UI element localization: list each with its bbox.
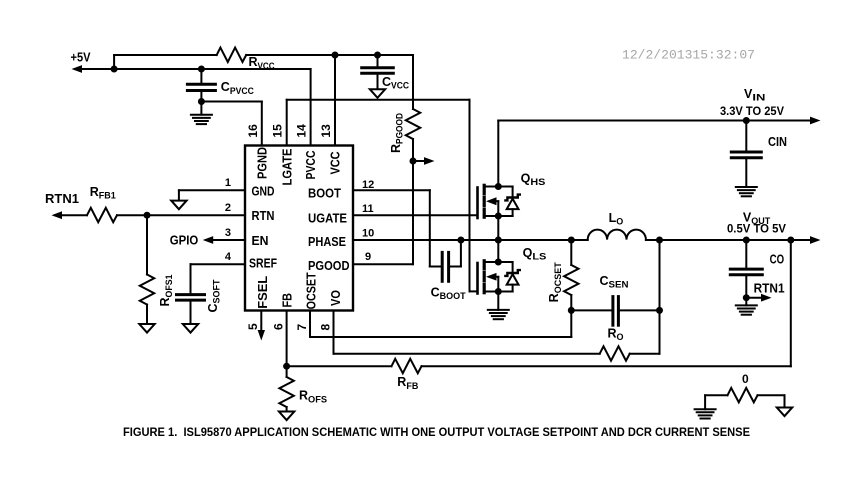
arrow GPIO — [203, 236, 214, 244]
svg-text:PVCC: PVCC — [303, 150, 318, 179]
op-amp U1 ISL95870 body — [245, 146, 353, 311]
svg-text:15: 15 — [271, 124, 285, 138]
svg-text:CBOOT: CBOOT — [431, 285, 466, 302]
svg-text:GPIO: GPIO — [170, 234, 199, 248]
resistor RVCC — [217, 48, 413, 72]
wire QLS drain to phase — [497, 240, 499, 262]
svg-text:SREF: SREF — [249, 255, 277, 270]
transistor QHS — [478, 185, 520, 218]
svg-text:7: 7 — [295, 324, 309, 331]
junction CSEN right — [656, 307, 663, 314]
junction QHS source — [495, 213, 502, 220]
junction QLS drain — [495, 259, 502, 266]
capacitor CSOFT — [177, 264, 223, 324]
svg-text:0: 0 — [742, 372, 749, 386]
svg-text:CIN: CIN — [768, 135, 787, 149]
ground triangle ROFS — [279, 412, 294, 421]
pin 14 PVCC leg — [295, 69, 311, 146]
inductor LO — [588, 211, 646, 240]
svg-text:10: 10 — [362, 227, 374, 239]
junction CVCC tap — [374, 52, 381, 59]
svg-text:1: 1 — [225, 177, 231, 189]
svg-text:LO: LO — [609, 211, 624, 228]
svg-text:PHASE: PHASE — [308, 234, 346, 249]
junction phase at ROCSET — [568, 237, 575, 244]
svg-text:VIN: VIN — [744, 87, 766, 104]
svg-text:VCC: VCC — [328, 151, 343, 175]
pin 9 PGOOD wire — [308, 251, 413, 273]
junction phase at QHS — [495, 237, 502, 244]
svg-text:OCSET: OCSET — [304, 272, 319, 309]
pin 2 RTN wire — [117, 202, 275, 223]
svg-text:QHS: QHS — [521, 172, 546, 189]
ground earth under CO — [736, 305, 757, 314]
resistor 0 ohm — [705, 372, 784, 402]
svg-text:4: 4 — [225, 251, 232, 263]
resistor RPGOOD — [389, 55, 420, 264]
junction VOUT at CSEN leg — [656, 237, 663, 244]
svg-text:PGND: PGND — [254, 147, 269, 179]
pin 15 LGATE leg — [271, 100, 287, 146]
ground earth under QLS — [488, 310, 509, 319]
capacitor CIN — [731, 121, 787, 188]
svg-text:12/2/201315:32:07: 12/2/201315:32:07 — [622, 48, 755, 63]
svg-text:2: 2 — [225, 202, 231, 214]
arrow PGOOD output — [413, 157, 435, 165]
svg-text:RO: RO — [608, 326, 624, 343]
junction QHS drain — [495, 183, 502, 190]
wire riser to RVCC rail — [114, 55, 217, 69]
junction CIN tap — [743, 117, 750, 124]
svg-text:3: 3 — [225, 227, 231, 239]
capacitor CVCC — [362, 55, 409, 91]
resistor ROCSET — [547, 240, 578, 310]
wire RTN to arrow — [52, 211, 88, 219]
svg-text:CSEN: CSEN — [600, 274, 629, 291]
svg-text:FB: FB — [279, 293, 294, 308]
pin 5 FSEL leg with arrow — [246, 276, 270, 341]
svg-text:ROFS: ROFS — [299, 389, 327, 406]
transistor QLS — [478, 261, 520, 294]
svg-text:11: 11 — [362, 203, 374, 215]
svg-text:FSEL: FSEL — [255, 276, 270, 309]
svg-text:13: 13 — [319, 124, 333, 138]
arrow RTN1 right — [746, 294, 771, 302]
pin 10 PHASE wire — [308, 227, 588, 249]
pin 8 VO leg — [318, 290, 599, 354]
svg-text:RPGOOD: RPGOOD — [389, 113, 406, 153]
svg-text:12: 12 — [362, 179, 374, 191]
svg-text:GND: GND — [252, 184, 275, 199]
wire VIN rail — [498, 117, 820, 125]
pin 1 GND wire — [179, 177, 275, 198]
svg-text:5: 5 — [246, 323, 260, 330]
resistor ROFS1 — [140, 215, 175, 324]
wire LGATE to QLS gate — [287, 100, 478, 292]
svg-text:QLS: QLS — [523, 246, 547, 263]
svg-text:3.3V TO 25V: 3.3V TO 25V — [720, 106, 784, 118]
ground earth under CPVCC — [191, 115, 212, 124]
pin 11 UGATE wire — [308, 203, 478, 225]
pin 7 OCSET leg — [295, 272, 571, 337]
junction VOUT feedback tap — [787, 237, 794, 244]
svg-text:6: 6 — [272, 323, 286, 330]
ground triangle under CVCC — [370, 89, 385, 98]
pin 6 FB leg — [272, 293, 295, 366]
svg-text:CPVCC: CPVCC — [221, 80, 254, 97]
svg-text:16: 16 — [246, 124, 260, 138]
svg-text:14: 14 — [295, 124, 309, 138]
svg-text:UGATE: UGATE — [308, 210, 347, 225]
junction ROCSET bottom — [568, 307, 575, 314]
resistor RFB1 — [87, 185, 117, 222]
wire +5V rail — [72, 65, 311, 73]
junction VCC pin rail — [332, 52, 339, 59]
svg-text:9: 9 — [365, 251, 371, 263]
ground triangle CSOFT — [183, 324, 198, 333]
wire QHS drain to VIN — [497, 121, 499, 187]
wire QHS source to phase — [497, 216, 499, 240]
wire BOOT down leg — [429, 190, 431, 266]
svg-text:RTN1: RTN1 — [754, 282, 785, 296]
capacitor CSEN — [571, 274, 659, 325]
svg-text:RFB: RFB — [397, 375, 418, 392]
svg-text:ROCSET: ROCSET — [547, 262, 564, 302]
resistor RFB — [287, 359, 791, 392]
ground triangle GND pin — [171, 190, 186, 209]
ground earth at 0 ohm left — [695, 395, 716, 418]
svg-text:+5V: +5V — [71, 51, 92, 65]
resistor RO — [600, 310, 660, 360]
svg-text:8: 8 — [318, 324, 332, 331]
svg-text:RTN: RTN — [252, 208, 275, 223]
junction CBOOT phase tap — [457, 237, 464, 244]
junction RTN1 tap — [743, 294, 750, 301]
pin 12 BOOT wire — [308, 179, 430, 201]
svg-text:0.5V TO 5V: 0.5V TO 5V — [727, 224, 786, 236]
junction CPVCC top — [198, 66, 205, 73]
resistor ROFS — [279, 366, 327, 411]
pin 3 EN wire — [207, 227, 269, 248]
svg-text:PGOOD: PGOOD — [308, 258, 350, 273]
junction RTN / ROFS1 — [144, 212, 151, 219]
svg-text:CO: CO — [770, 253, 785, 267]
svg-text:BOOT: BOOT — [308, 186, 341, 201]
junction CO tap — [743, 237, 750, 244]
wire VOUT feedback down leg — [790, 240, 792, 366]
junction +5V riser — [111, 66, 118, 73]
capacitor CO — [730, 240, 784, 305]
svg-text:ROFS1: ROFS1 — [158, 274, 175, 307]
wire QLS source to ground — [497, 292, 499, 310]
junction QLS source — [495, 288, 502, 295]
wire CSEN node to VOUT rail — [659, 240, 661, 310]
svg-text:VO: VO — [328, 290, 343, 306]
svg-text:LGATE: LGATE — [279, 148, 294, 185]
capacitor CPVCC — [187, 69, 254, 115]
ground triangle at 0 ohm right — [777, 395, 792, 416]
pin 4 SREF wire — [191, 251, 278, 270]
svg-text:FIGURE 1. ISL95870 APPLICATIO: FIGURE 1. ISL95870 APPLICATION SCHEMATIC… — [123, 425, 750, 439]
svg-text:EN: EN — [252, 233, 269, 248]
ground triangle ROFS1 — [139, 324, 154, 333]
pin 13 VCC leg — [319, 55, 335, 146]
svg-text:CSOFT: CSOFT — [206, 279, 223, 312]
ground earth under CIN — [736, 187, 757, 196]
svg-text:RTN1: RTN1 — [45, 192, 79, 206]
junction CPVCC bottom / PGND tap — [198, 98, 205, 105]
wire VOUT rail — [646, 236, 821, 244]
capacitor CBOOT — [430, 240, 466, 302]
junction FB node — [283, 363, 290, 370]
junction PGOOD pullup — [410, 158, 417, 165]
svg-text:RFB1: RFB1 — [90, 185, 117, 202]
wire CPVCC to PGND pin16 — [201, 102, 261, 146]
